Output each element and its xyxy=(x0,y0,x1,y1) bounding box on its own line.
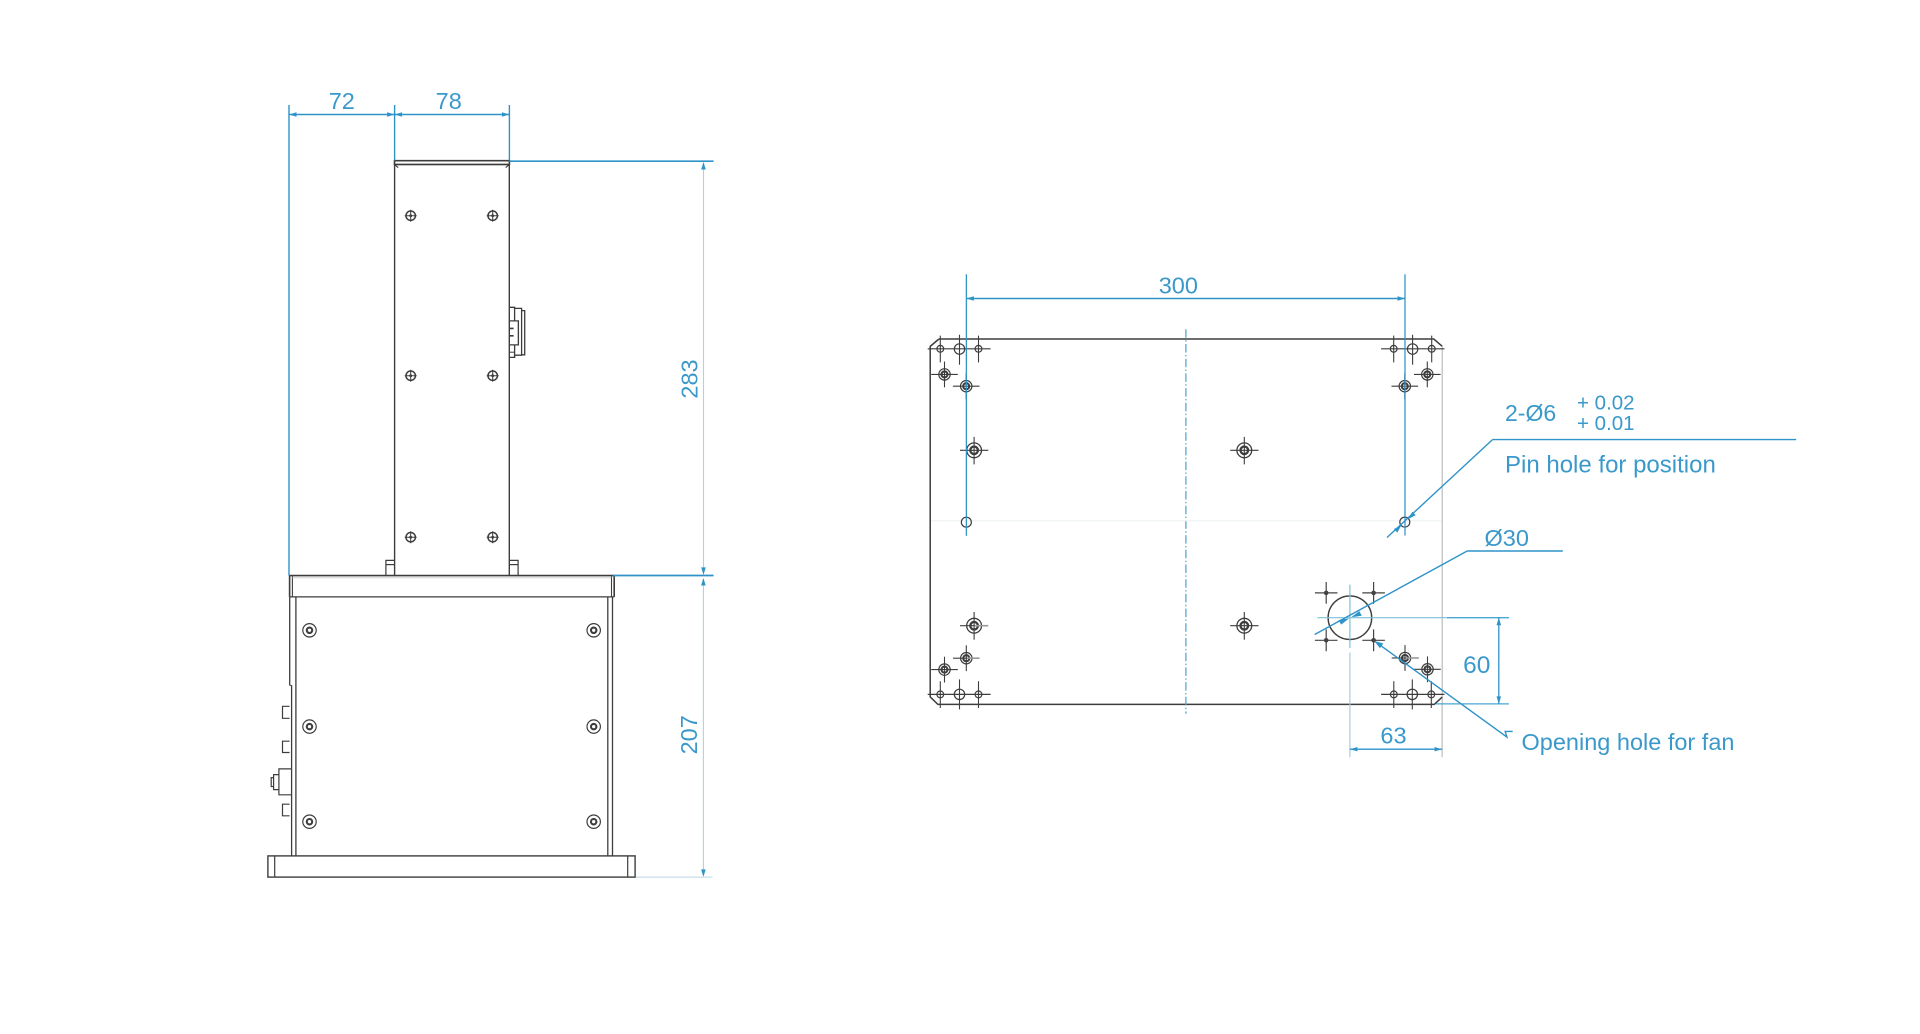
leader Opening hole for fan xyxy=(1374,641,1512,737)
tower screw B2 xyxy=(487,370,499,382)
box screw R3 xyxy=(587,815,600,828)
RIGHT VIEW xyxy=(928,329,1447,714)
BL corner hole row xyxy=(928,679,991,709)
dim 72 extension line left xyxy=(288,105,290,576)
TR screw hole 1 xyxy=(1414,362,1441,388)
center mounting hole upper xyxy=(1230,437,1258,465)
pin hole right xyxy=(1400,517,1410,527)
dim 60 line xyxy=(1497,618,1502,704)
svg-text:207: 207 xyxy=(676,715,702,754)
leader 2-Ø6 xyxy=(1387,440,1796,538)
leader Ø30 xyxy=(1315,551,1563,635)
dim 300 extension left xyxy=(965,274,967,535)
tower screw C2 xyxy=(487,531,499,543)
tower screw A1 xyxy=(405,210,417,222)
TL corner hole row xyxy=(928,335,991,365)
box screw L1 xyxy=(303,624,316,637)
dim 283 extension top xyxy=(510,160,714,162)
dim 300 line xyxy=(966,296,1405,300)
BR screw hole 2 xyxy=(1392,645,1419,671)
BL screw hole 2 xyxy=(953,645,980,671)
box screw R1 xyxy=(587,624,600,637)
center mounting hole lower xyxy=(1230,612,1258,640)
box lid xyxy=(290,576,615,597)
svg-text:Pin hole for position: Pin hole for position xyxy=(1505,451,1716,478)
BR corner hole row xyxy=(1381,679,1444,709)
svg-text:+ 0.01: + 0.01 xyxy=(1577,412,1635,435)
svg-text:72: 72 xyxy=(329,88,355,114)
svg-text:Opening hole for fan: Opening hole for fan xyxy=(1522,729,1735,755)
left connector 2 xyxy=(283,741,290,752)
fan screw hole 1 xyxy=(1315,582,1338,604)
left connector 4 xyxy=(283,804,290,816)
base plate outline xyxy=(930,339,1442,704)
svg-text:60: 60 xyxy=(1463,652,1490,679)
tower lid xyxy=(395,161,510,168)
fan screw hole 3 xyxy=(1315,629,1338,651)
svg-text:283: 283 xyxy=(676,359,702,398)
svg-text:78: 78 xyxy=(436,88,462,114)
TR corner hole row xyxy=(1381,335,1444,365)
plate centerline xyxy=(1185,329,1187,714)
DIMENSIONS xyxy=(289,88,1796,877)
faint construction line xyxy=(931,520,1441,522)
dim 300 extension right xyxy=(1404,274,1406,535)
svg-text:Ø30: Ø30 xyxy=(1485,525,1529,551)
TR screw hole 2 xyxy=(1392,373,1419,399)
tower screw B1 xyxy=(405,370,417,382)
dim 60 extension bottom xyxy=(1436,703,1509,705)
svg-text:2-Ø6: 2-Ø6 xyxy=(1505,400,1556,426)
dim 283 line xyxy=(701,162,706,575)
fan screw hole 2 xyxy=(1362,582,1385,604)
fan opening circle xyxy=(1317,585,1447,648)
tower bottom tab right xyxy=(509,560,518,575)
dim 207 extension bottom xyxy=(636,876,713,878)
BR screw hole 1 xyxy=(1414,656,1441,682)
svg-text:300: 300 xyxy=(1159,273,1198,299)
mid-left mounting hole lower xyxy=(960,612,988,640)
dim 60 extension top xyxy=(1447,617,1509,619)
dim 78 extension line right xyxy=(508,105,510,160)
left connector 3 (coax) xyxy=(271,769,291,795)
TL screw hole 2 xyxy=(953,373,980,399)
tower body xyxy=(395,164,510,575)
dim 63 line xyxy=(1350,747,1442,751)
dim 78 line xyxy=(395,112,510,116)
dim 72/78 extension line middle xyxy=(394,105,396,160)
mid-left mounting hole upper xyxy=(960,437,988,465)
box screw L2 xyxy=(303,720,316,733)
box screw L3 xyxy=(303,815,316,828)
dim 63 extension left xyxy=(1349,653,1351,758)
tower bottom tab left xyxy=(386,560,395,575)
svg-text:63: 63 xyxy=(1380,723,1406,749)
box body xyxy=(290,597,613,856)
LEFT VIEW xyxy=(268,161,635,877)
box foot xyxy=(268,856,635,877)
dim 72 line xyxy=(289,112,395,116)
dim 283 extension bottom xyxy=(613,575,714,577)
box screw R2 xyxy=(587,720,600,733)
dim 207 line xyxy=(701,578,706,877)
side connector on tower xyxy=(509,307,524,357)
fan screw hole 4 xyxy=(1362,629,1385,651)
BL screw hole 1 xyxy=(931,657,958,683)
tower screw A2 xyxy=(487,210,499,222)
TL screw hole 1 xyxy=(931,362,958,388)
pin hole left xyxy=(961,517,971,527)
tower screw C1 xyxy=(405,531,417,543)
left connector 1 xyxy=(283,706,290,718)
dim 63 extension right xyxy=(1441,705,1443,758)
